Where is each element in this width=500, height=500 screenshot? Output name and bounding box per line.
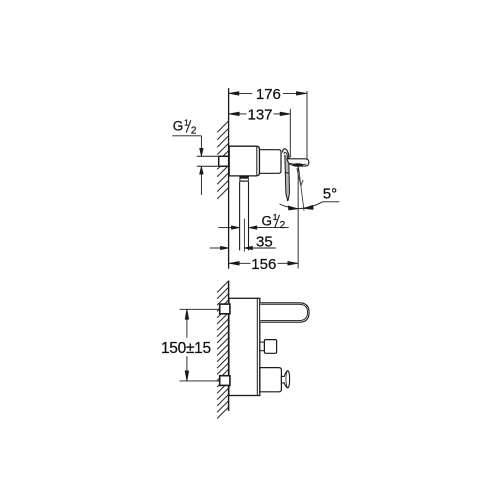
inlet pipe G1/2 (through wall) xyxy=(197,156,229,167)
trumpet rim line xyxy=(286,371,287,388)
svg-text:156: 156 xyxy=(251,256,276,273)
svg-text:5°: 5° xyxy=(323,185,337,202)
extension line top (150 dim) xyxy=(180,308,220,310)
extension line 176 (right) xyxy=(306,91,308,159)
outlet pipe axis line xyxy=(243,219,245,252)
dimension 35 xyxy=(210,247,222,249)
thin pin (lever alt position) xyxy=(297,168,303,185)
dimension 150+-15 vertical line xyxy=(186,310,188,381)
mixer body block xyxy=(229,146,259,176)
svg-text:2: 2 xyxy=(280,220,286,231)
diverter trumpet knob xyxy=(281,371,289,388)
tilted 5 deg lever axis line xyxy=(299,168,304,211)
wall face line (lower view) xyxy=(228,281,230,412)
5 deg arc with arrows xyxy=(280,202,340,209)
cap rim line xyxy=(290,163,307,164)
G1/2 outlet leader arrows xyxy=(218,227,232,229)
small knob xyxy=(264,340,276,354)
dimension 176 xyxy=(229,92,307,94)
lever blade separator line xyxy=(285,172,289,174)
wall hatching (upper view) xyxy=(217,121,228,199)
lever neck xyxy=(283,149,290,159)
body chamfer ring line xyxy=(256,147,258,176)
svg-text:G: G xyxy=(173,119,184,134)
mixer body (front) xyxy=(229,298,260,395)
wall face line (upper view, also dim extension) xyxy=(228,88,230,269)
dimension 156 xyxy=(229,262,298,264)
svg-text:35: 35 xyxy=(256,234,273,251)
outlet pipe (down) xyxy=(239,182,241,251)
cartridge housing xyxy=(260,150,282,174)
svg-text:176: 176 xyxy=(256,86,281,103)
lever cap (horizontal) xyxy=(287,159,309,166)
svg-text:2: 2 xyxy=(191,125,197,136)
mounting union square (bottom) xyxy=(220,376,230,386)
cap underside dark blob xyxy=(292,163,303,166)
small knob neck xyxy=(260,342,265,351)
svg-text:137: 137 xyxy=(247,107,272,124)
outlet collar nut under body xyxy=(239,177,248,182)
lower cylinder xyxy=(260,368,282,392)
lever loop (front view) outer xyxy=(260,303,309,322)
lever loop inner line xyxy=(260,304,307,320)
mounting union square (top) xyxy=(220,304,230,314)
G1/2 leader underline + arrows (inlet) xyxy=(172,135,201,137)
svg-text:150±15: 150±15 xyxy=(161,340,211,357)
svg-text:G: G xyxy=(262,213,273,228)
dimension 137 xyxy=(229,113,282,115)
vertical reference line (5 deg / 156 ext) xyxy=(297,167,299,269)
extension line bottom (150 dim) xyxy=(180,380,220,382)
body inner edge line xyxy=(256,299,258,395)
extension line 137 (right) xyxy=(289,109,291,158)
lever handle blade (grey) xyxy=(285,155,290,201)
wall hatching (lower view) xyxy=(217,281,229,419)
